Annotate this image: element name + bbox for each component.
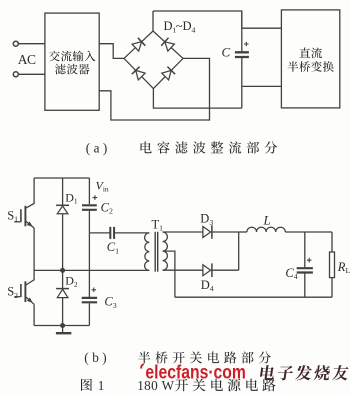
wire C bottom to DC minus rail: [241, 58, 243, 109]
transistor S1 body bar: [24, 206, 26, 227]
svg-text:1: 1: [98, 378, 105, 393]
wire filter box to bridge left vertex: [99, 44, 124, 59]
capacitor C2: [88, 178, 90, 233]
wire bridge top vertex to top rail: [152, 11, 154, 31]
diode D3: [203, 227, 211, 238]
block AC input filter box: [45, 13, 99, 110]
transistor S2 body bar: [24, 281, 26, 302]
transistor S2 gate bar: [20, 284, 22, 297]
transistor S1 emitter: [26, 221, 34, 228]
inductor L: [247, 227, 285, 232]
capacitor C4: [304, 232, 306, 297]
wire C1 to transformer primary: [115, 232, 150, 234]
diode D2: [62, 270, 64, 325]
capacitor C plates: [235, 52, 249, 57]
wire S1 gate lead: [14, 221, 20, 223]
bridge diode bottom-right: [162, 70, 171, 80]
wire S1 emitter to mid rail: [33, 228, 35, 270]
wire output bottom rail: [175, 296, 332, 298]
svg-text:(b): (b): [84, 350, 110, 365]
wire filter box to bridge right vertex: [99, 58, 209, 120]
bridge diamond edges: [124, 31, 183, 89]
diode D4: [203, 265, 211, 276]
bridge diode top-left: [132, 42, 142, 51]
wire secondary centre tap down: [165, 251, 175, 297]
transformer T1 secondary winding: [163, 232, 168, 270]
caption 半桥开关电路部分: [138, 351, 271, 363]
resistor RL: [331, 232, 333, 297]
wire S1 collector column: [26, 178, 34, 208]
svg-text:(a): (a): [86, 141, 111, 156]
caption 图1: [81, 379, 92, 391]
text 滤波器: [55, 64, 89, 75]
plus sign of C4: [307, 258, 312, 263]
block DC half-bridge box: [281, 10, 339, 108]
text 半桥变换: [288, 61, 334, 72]
svg-text:elecfans·com: elecfans·com: [145, 362, 246, 383]
wire to DC box bottom input: [242, 85, 282, 87]
svg-text:L: L: [263, 212, 271, 227]
wire AC1 to filter box: [18, 43, 45, 45]
wire mid rail: [34, 269, 149, 271]
caption 开关电源电路: [175, 379, 276, 392]
wire C2 bottom to C1: [89, 232, 109, 234]
wire D3 D4 cathode join column: [238, 232, 240, 270]
junction dot mid rail: [60, 268, 65, 273]
wire to inductor L: [239, 231, 247, 233]
svg-text:AC: AC: [18, 52, 36, 67]
capacitor C3: [82, 298, 97, 302]
wire top rail to capacitor C: [153, 11, 242, 51]
bridge diode top-right: [165, 42, 175, 51]
plus sign of C: [244, 42, 249, 47]
wire S2 emitter to bottom rail: [33, 304, 35, 325]
watermark icon: [141, 364, 144, 369]
transistor S2 emitter: [26, 297, 34, 304]
svg-text:C: C: [222, 45, 231, 60]
transformer T1 primary winding: [145, 233, 150, 271]
capacitor C1: [110, 227, 114, 239]
text 交流输入: [49, 51, 95, 62]
wire S2 collector column: [26, 270, 34, 285]
wire bridge bottom vertex DC minus rail: [153, 89, 241, 109]
capacitor C3 column crossover: [88, 233, 90, 297]
wire C top to DC box: [242, 11, 282, 28]
wire Vin top rail: [34, 177, 89, 179]
wire bottom rail left: [34, 325, 89, 327]
transistor S1 gate bar: [20, 209, 22, 222]
wire AC2 to filter box: [18, 73, 45, 75]
plus sign of C3: [92, 288, 97, 293]
junction dot bottom rail: [60, 323, 65, 328]
wire secondary bottom lead to D4: [163, 269, 203, 271]
diode D1: [62, 178, 64, 270]
wire output top rail: [285, 231, 332, 233]
caption 电容滤波整流部分: [141, 141, 278, 153]
terminal AC line 2: [13, 72, 18, 77]
watermark 电子发烧友: [259, 365, 349, 380]
wire S2 gate lead: [14, 296, 20, 298]
terminal AC line 1: [13, 41, 18, 46]
ground: [62, 326, 64, 333]
transformer T1 core: [155, 232, 158, 272]
bridge diode bottom-left: [136, 70, 145, 80]
text 直流: [300, 48, 323, 59]
plus sign of C2: [93, 195, 98, 200]
wire secondary top lead to D3: [163, 231, 203, 233]
